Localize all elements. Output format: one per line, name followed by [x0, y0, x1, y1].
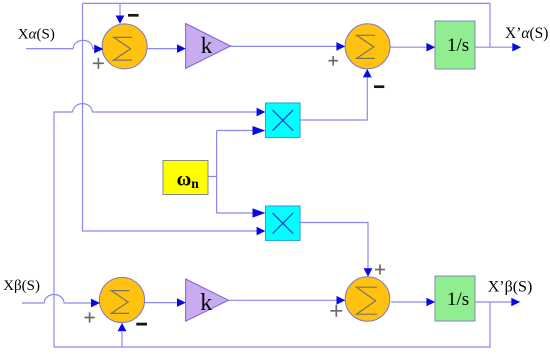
wire: omega-n distribution to both multipliers: [208, 131, 253, 214]
integrator I2: [435, 276, 475, 321]
arrowhead into I2: [426, 298, 435, 307]
wire: X'beta feedback left vertical with hop, into top multiplier M1: [54, 104, 257, 347]
minus sign at S2 bottom: [374, 85, 384, 88]
wire: S4 to integrator I2: [391, 301, 426, 303]
plus sign at S4 top: [375, 265, 385, 275]
gain K1: [186, 24, 231, 69]
multiplier M2: [266, 206, 301, 241]
wire: bottom feedback line X'beta to lower-left: [54, 302, 490, 347]
arrowhead into S2 bottom minus: [363, 69, 372, 78]
arrowhead into S2: [336, 42, 345, 51]
svg-text:Xβ(S): Xβ(S): [3, 278, 40, 294]
arrowhead into S4 top plus: [364, 268, 373, 277]
svg-text:k: k: [201, 33, 213, 58]
svg-text:k: k: [200, 290, 212, 316]
wire: K2 to summing junction S4: [229, 299, 338, 301]
gain K2: [186, 279, 229, 321]
svg-text:1/s: 1/s: [447, 35, 469, 56]
integrator I1: [435, 21, 475, 69]
arrowhead X'beta output: [511, 298, 520, 307]
svg-text:Xα(S): Xα(S): [18, 26, 55, 42]
wire: Xbeta input with hop over X'beta vertical: [22, 295, 91, 304]
wire: S1 to gain K1: [147, 48, 177, 50]
plus sign at S2 input: [328, 56, 338, 66]
plus sign at S4 input: [330, 305, 342, 317]
multiplier M1: [266, 103, 301, 138]
svg-text:1/s: 1/s: [447, 289, 469, 310]
wire: S2 to integrator I1: [390, 46, 427, 48]
svg-text:X’α(S): X’α(S): [505, 25, 548, 42]
wire: multiplier M1 output up into S2 minus input: [300, 78, 367, 121]
summing junction S1: [102, 24, 147, 69]
arrowhead into M1 upper input: [257, 108, 266, 117]
wire: top feedback line from X'alpha output to left vertical: [83, 3, 491, 47]
arrowhead into M1 lower input from omega-n: [253, 126, 266, 135]
plus sign at S3 input: [85, 312, 95, 322]
wire: left vertical X'alpha feedback down and into bottom multiplier: [83, 3, 258, 231]
wire: I1 output to X'alpha with junction: [475, 46, 512, 48]
summing junction S4: [345, 277, 390, 322]
summing junction S2: [345, 24, 390, 69]
arrowhead into S3 from Xbeta: [91, 299, 100, 308]
summing junction S3: [99, 277, 144, 322]
arrowhead X'alpha output: [512, 43, 521, 52]
minus sign at S3 bottom: [136, 323, 147, 326]
wire: K1 to summing junction S2: [231, 45, 337, 47]
wire: S3 to gain K2: [145, 302, 178, 304]
wire: I2 output to X'beta with junction: [475, 301, 511, 303]
arrowhead into K2: [177, 298, 186, 307]
plus sign at S1 input: [93, 58, 104, 69]
wire: Xalpha input with hop over node-A vertical: [26, 40, 95, 49]
arrowhead into S4: [337, 296, 346, 305]
arrowhead into K1: [177, 44, 186, 53]
wire: rise into S3 minus input from bottom feedback: [121, 332, 123, 347]
minus sign at S1 top: [128, 14, 139, 17]
arrowhead into I1: [426, 43, 435, 52]
constant block omega-n: [163, 161, 208, 195]
wire: multiplier M2 output down into S4 plus input: [300, 223, 368, 269]
arrowhead into M2 upper input from omega-n: [253, 208, 266, 217]
arrowhead into S3 bottom minus: [118, 323, 127, 331]
arrowhead into M2 lower input: [257, 227, 266, 236]
wire: minus input drop into summing junction S1: [119, 3, 121, 16]
arrowhead into S1 from Xalpha: [94, 45, 103, 54]
svg-text:X’β(S): X’β(S): [488, 279, 533, 296]
arrowhead into S1 top minus: [116, 16, 125, 24]
